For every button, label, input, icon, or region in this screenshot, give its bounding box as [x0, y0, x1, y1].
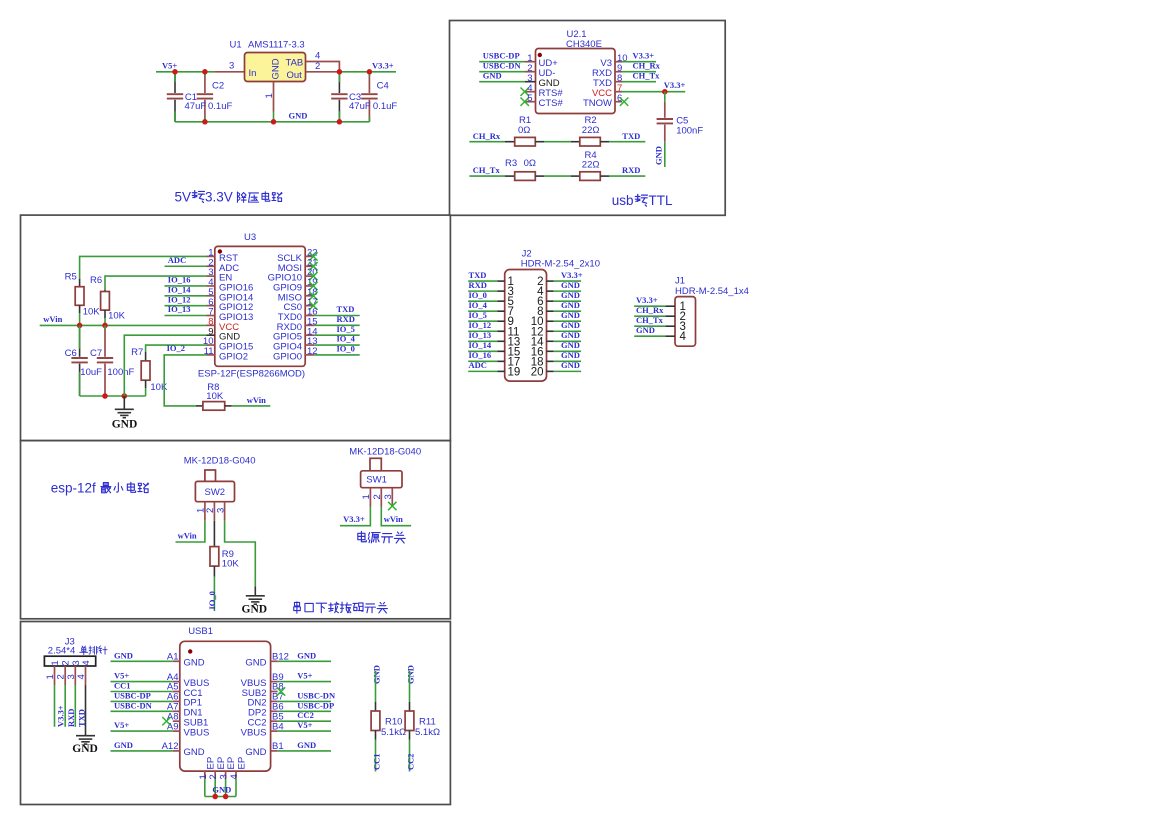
- svg-text:C2: C2: [212, 80, 224, 91]
- svg-text:R10: R10: [385, 717, 402, 728]
- svg-text:GND: GND: [483, 70, 502, 80]
- svg-text:R3: R3: [505, 158, 517, 169]
- svg-text:10K: 10K: [108, 311, 126, 322]
- svg-text:V3.3+: V3.3+: [343, 514, 365, 524]
- svg-text:100nF: 100nF: [107, 367, 134, 378]
- svg-text:CH_Tx: CH_Tx: [473, 165, 501, 175]
- svg-text:TXD: TXD: [337, 304, 355, 314]
- svg-text:V3.3+: V3.3+: [56, 705, 66, 727]
- svg-text:TXD: TXD: [469, 270, 487, 280]
- svg-text:3: 3: [229, 61, 234, 72]
- svg-text:IO_2: IO_2: [167, 343, 185, 353]
- svg-text:IO_12: IO_12: [469, 320, 492, 330]
- svg-text:0.1uF: 0.1uF: [208, 101, 232, 112]
- svg-text:20: 20: [531, 366, 544, 378]
- svg-text:CH340E: CH340E: [566, 39, 602, 50]
- svg-text:47uF: 47uF: [185, 101, 207, 112]
- svg-text:1: 1: [264, 93, 275, 98]
- svg-text:GND: GND: [271, 58, 282, 79]
- svg-text:ADC: ADC: [469, 360, 487, 370]
- svg-text:CTS#: CTS#: [539, 98, 564, 109]
- svg-text:4: 4: [315, 51, 320, 62]
- svg-text:GND: GND: [112, 418, 138, 430]
- svg-text:4: 4: [680, 331, 687, 343]
- svg-text:GND: GND: [114, 650, 133, 660]
- svg-text:AMS1117-3.3: AMS1117-3.3: [248, 40, 305, 51]
- svg-text:usb: usb: [612, 193, 634, 208]
- svg-text:RXD: RXD: [337, 314, 355, 324]
- svg-text:R6: R6: [90, 275, 102, 286]
- svg-text:V5+: V5+: [114, 720, 129, 730]
- svg-text:CH_Rx: CH_Rx: [473, 131, 501, 141]
- svg-text:2.54*4: 2.54*4: [48, 646, 75, 657]
- svg-text:5: 5: [527, 93, 532, 104]
- svg-text:5.1kΩ: 5.1kΩ: [381, 727, 406, 738]
- svg-text:IO_4: IO_4: [337, 334, 356, 344]
- svg-text:5.1kΩ: 5.1kΩ: [415, 727, 440, 738]
- svg-text:IO_4: IO_4: [469, 300, 488, 310]
- svg-text:GND: GND: [561, 290, 580, 300]
- svg-text:V5+: V5+: [297, 671, 312, 681]
- svg-text:MK-12D18-G040: MK-12D18-G040: [349, 447, 421, 458]
- svg-text:GND: GND: [561, 310, 580, 320]
- svg-text:USBC-DP: USBC-DP: [297, 700, 334, 710]
- svg-text:CH_Rx: CH_Rx: [636, 305, 664, 315]
- svg-text:USBC-DN: USBC-DN: [297, 690, 336, 700]
- svg-text:IO_13: IO_13: [469, 330, 492, 340]
- svg-text:TAB: TAB: [286, 58, 304, 69]
- svg-text:V3.3+: V3.3+: [561, 270, 583, 280]
- svg-text:GND: GND: [561, 280, 580, 290]
- svg-text:USBC-DP: USBC-DP: [483, 50, 520, 60]
- svg-text:V3.3+: V3.3+: [664, 80, 686, 90]
- svg-text:U1: U1: [230, 40, 242, 51]
- svg-text:3: 3: [383, 494, 394, 499]
- svg-text:GND: GND: [561, 340, 580, 350]
- svg-text:TNOW: TNOW: [583, 98, 612, 109]
- svg-text:GND: GND: [114, 740, 133, 750]
- svg-text:TTL: TTL: [649, 193, 673, 208]
- svg-text:IO_16: IO_16: [469, 350, 492, 360]
- svg-text:GND: GND: [245, 658, 266, 669]
- svg-text:HDR-M-2.54_1x4: HDR-M-2.54_1x4: [675, 286, 749, 297]
- svg-text:4: 4: [81, 660, 92, 665]
- svg-text:GND: GND: [297, 740, 316, 750]
- svg-text:V3.3+: V3.3+: [372, 60, 394, 70]
- svg-text:2: 2: [372, 494, 383, 499]
- svg-text:0Ω: 0Ω: [524, 158, 536, 169]
- svg-text:GND: GND: [654, 146, 664, 165]
- svg-text:4: 4: [76, 674, 87, 679]
- svg-text:GND: GND: [72, 743, 98, 755]
- svg-text:10uF: 10uF: [80, 367, 102, 378]
- svg-text:GND: GND: [372, 665, 382, 684]
- svg-text:1: 1: [50, 660, 61, 665]
- svg-text:CC2: CC2: [406, 753, 416, 770]
- svg-text:GND: GND: [289, 111, 308, 121]
- svg-text:GPIO0: GPIO0: [273, 351, 302, 362]
- svg-text:V5+: V5+: [162, 60, 177, 70]
- svg-text:CC1: CC1: [114, 681, 131, 691]
- svg-text:USBC-DN: USBC-DN: [114, 700, 153, 710]
- svg-text:IO_0: IO_0: [469, 290, 487, 300]
- svg-text:GPIO2: GPIO2: [219, 351, 248, 362]
- svg-text:USB1: USB1: [188, 626, 213, 637]
- svg-text:R5: R5: [65, 271, 77, 282]
- svg-text:In: In: [249, 68, 257, 79]
- svg-text:EP: EP: [237, 757, 248, 770]
- svg-text:0.1uF: 0.1uF: [373, 101, 397, 112]
- svg-text:GND: GND: [561, 330, 580, 340]
- svg-text:GND: GND: [406, 665, 416, 684]
- svg-text:GND: GND: [297, 650, 316, 660]
- svg-text:GND: GND: [242, 603, 268, 615]
- svg-text:V3.3+: V3.3+: [636, 295, 658, 305]
- svg-text:47uF: 47uF: [349, 101, 371, 112]
- svg-text:ESP-12F(ESP8266MOD): ESP-12F(ESP8266MOD): [198, 369, 305, 380]
- svg-text:USBC-DP: USBC-DP: [114, 690, 151, 700]
- svg-text:V5+: V5+: [297, 720, 312, 730]
- svg-text:IO_13: IO_13: [168, 304, 191, 314]
- svg-text:IO_14: IO_14: [168, 284, 191, 294]
- svg-text:10K: 10K: [206, 391, 224, 402]
- svg-text:10K: 10K: [83, 307, 101, 318]
- svg-text:GND: GND: [245, 747, 266, 758]
- svg-text:1: 1: [198, 774, 209, 779]
- svg-text:CH_Rx: CH_Rx: [633, 60, 661, 70]
- svg-text:GND: GND: [561, 300, 580, 310]
- svg-text:SW1: SW1: [366, 474, 387, 485]
- svg-text:C7: C7: [90, 348, 102, 359]
- svg-text:GND: GND: [561, 360, 580, 370]
- svg-text:GND: GND: [184, 658, 205, 669]
- svg-text:USBC-DN: USBC-DN: [483, 60, 522, 70]
- svg-text:IO_12: IO_12: [168, 294, 191, 304]
- svg-text:VBUS: VBUS: [241, 727, 267, 738]
- svg-text:MK-12D18-G040: MK-12D18-G040: [184, 456, 256, 467]
- svg-text:2: 2: [315, 61, 320, 72]
- svg-text:3: 3: [215, 508, 226, 513]
- svg-text:RXD: RXD: [469, 280, 487, 290]
- svg-text:EP: EP: [226, 757, 237, 770]
- svg-text:VBUS: VBUS: [184, 727, 210, 738]
- svg-text:CC2: CC2: [297, 710, 314, 720]
- svg-text:100nF: 100nF: [676, 125, 703, 136]
- svg-text:22Ω: 22Ω: [582, 159, 600, 170]
- svg-text:3.3V: 3.3V: [205, 189, 233, 204]
- svg-text:2: 2: [208, 774, 219, 779]
- svg-text:R11: R11: [419, 717, 436, 728]
- svg-text:CC1: CC1: [372, 753, 382, 770]
- svg-text:V5+: V5+: [114, 671, 129, 681]
- svg-text:TXD: TXD: [622, 131, 640, 141]
- svg-text:SW2: SW2: [205, 487, 226, 498]
- svg-text:R7: R7: [131, 347, 143, 358]
- svg-text:1: 1: [45, 674, 56, 679]
- svg-text:1: 1: [361, 494, 372, 499]
- svg-text:C6: C6: [65, 348, 77, 359]
- svg-text:EP: EP: [205, 757, 216, 770]
- svg-text:0Ω: 0Ω: [518, 125, 530, 136]
- svg-text:V3.3+: V3.3+: [633, 50, 655, 60]
- svg-text:GND: GND: [561, 320, 580, 330]
- svg-text:J1: J1: [675, 276, 685, 287]
- svg-text:IO_0: IO_0: [337, 344, 355, 354]
- svg-text:wVin: wVin: [384, 514, 403, 524]
- svg-text:HDR-M-2.54_2x10: HDR-M-2.54_2x10: [521, 259, 600, 270]
- svg-text:10K: 10K: [150, 382, 168, 393]
- svg-text:RXD: RXD: [622, 165, 640, 175]
- svg-text:GND: GND: [561, 350, 580, 360]
- svg-text:22Ω: 22Ω: [582, 125, 600, 136]
- svg-text:C4: C4: [377, 80, 389, 91]
- svg-text:5V: 5V: [175, 189, 192, 204]
- svg-text:CH_Tx: CH_Tx: [636, 315, 664, 325]
- svg-text:esp-12f: esp-12f: [51, 481, 96, 496]
- svg-text:19: 19: [508, 366, 521, 378]
- svg-text:U3: U3: [244, 232, 256, 243]
- svg-text:3: 3: [219, 774, 230, 779]
- svg-text:CH_Tx: CH_Tx: [633, 70, 661, 80]
- svg-text:10K: 10K: [222, 559, 240, 570]
- svg-text:GND: GND: [184, 747, 205, 758]
- svg-text:wVin: wVin: [43, 314, 62, 324]
- svg-text:IO_0: IO_0: [207, 591, 217, 609]
- svg-text:Out: Out: [287, 70, 303, 81]
- svg-text:wVin: wVin: [247, 395, 266, 405]
- svg-text:4: 4: [229, 774, 240, 779]
- svg-text:wVin: wVin: [178, 530, 197, 540]
- svg-text:GND: GND: [212, 784, 231, 794]
- svg-text:EP: EP: [216, 757, 227, 770]
- svg-text:GND: GND: [636, 325, 655, 335]
- svg-text:IO_5: IO_5: [469, 310, 487, 320]
- svg-text:IO_5: IO_5: [337, 324, 355, 334]
- svg-text:IO_14: IO_14: [469, 340, 492, 350]
